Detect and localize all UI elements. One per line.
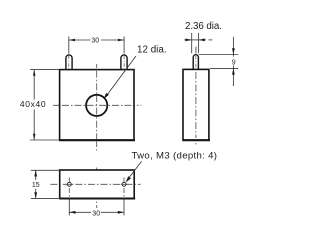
dim 15 dimension line [35,170,37,180]
right hole vertical centerline [123,178,125,200]
dim 2.36 left arrow (pointing right) [186,39,192,42]
front view left terminal pin [66,55,72,70]
horizontal centerline front view [53,104,141,106]
dim 2.36 extension lines [191,33,193,53]
dim 9 extension lines [199,54,239,56]
svg-text:Two, M3 (depth: 4): Two, M3 (depth: 4) [132,150,218,161]
dim 9 bottom arrow (pointing up) [232,68,235,74]
dim 30 bottom extension lines [68,200,70,216]
dim 30 top dimension line [69,39,91,41]
dim 40x40 dimension line [33,70,35,100]
bottom plate bottom edge (heavier) [59,198,135,200]
dim 2.36 right arrow (pointing left) [199,39,205,42]
dim 9 top arrow (pointing down) [232,48,235,54]
dim 30 bottom dimension line [69,211,91,213]
dim 9 dimension line [232,37,234,57]
left pin centerline (inside pin) [68,56,70,76]
right pin centerline (inside pin) [123,56,125,76]
vertical centerline front view (above plate) [96,64,98,68]
side pin centerline tail above pin [195,47,197,54]
side view centerline [195,47,197,147]
front view plate 40x40 [60,70,134,140]
dim 30 top extension lines [68,37,70,54]
hole circle 12 dia [86,95,107,116]
dim 30 bottom left arrow [69,211,75,214]
svg-text:30: 30 [92,211,100,218]
bottom view plate [60,170,135,198]
svg-text:9: 9 [232,59,236,66]
leader 12 dia. [107,56,136,95]
dim 40x40 extension lines [30,69,60,71]
re-draw centerline parts inside plate [96,71,98,139]
dim 40x40 top arrow [33,70,36,76]
bottom left M3 hole [67,182,71,186]
dim 30 top left arrow [69,39,75,42]
dim 15 extension lines [31,169,60,171]
leader Two M3 [129,161,142,178]
holes horizontal centerline [50,183,140,185]
dim 40x40 bottom arrow [33,134,36,140]
dim 30 top right arrow [118,39,124,42]
left hole vertical centerline [68,178,70,200]
vertical centerline through bottom view [96,168,98,209]
svg-text:15: 15 [32,182,40,189]
dim 15 bottom arrow [34,192,37,198]
side pin centerline (inside pin) [195,56,197,68]
side view plate [183,69,209,140]
svg-text:40x40: 40x40 [20,99,46,109]
bottom right M3 hole [122,182,126,186]
dim 2.36 dimension line [184,39,192,41]
svg-text:30: 30 [91,38,99,45]
vertical centerline gap segment below plate [96,142,98,148]
front plate bottom edge (heavier) [59,139,135,141]
svg-text:2.36 dia.: 2.36 dia. [185,21,222,32]
front view right terminal pin [121,55,127,70]
side plate bottom edge (heavier) [182,139,210,141]
left pin centerline [68,55,70,77]
dim 30 bottom right arrow [118,211,124,214]
right pin centerline [123,55,125,77]
dim 15 top arrow [34,170,37,176]
svg-text:12 dia.: 12 dia. [137,44,167,55]
side view pin [193,55,198,70]
